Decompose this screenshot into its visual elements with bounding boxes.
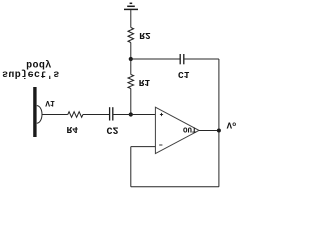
svg-text:OUT: OUT bbox=[183, 124, 197, 132]
svg-text:V1: V1 bbox=[45, 98, 55, 107]
svg-text:R4: R4 bbox=[66, 124, 78, 135]
wire bbox=[131, 58, 180, 60]
wire bbox=[83, 114, 110, 116]
svg-text:R2: R2 bbox=[139, 30, 151, 41]
wire bbox=[130, 89, 132, 115]
label OUT bbox=[183, 124, 197, 132]
svg-text:C1: C1 bbox=[178, 69, 190, 80]
resistor R1 bbox=[128, 75, 134, 89]
text subject's body bbox=[26, 58, 52, 70]
wire plus input stub bbox=[131, 114, 156, 116]
capacitor C1 bbox=[180, 54, 184, 64]
svg-text:o: o bbox=[232, 120, 236, 127]
op-amp U1 bbox=[155, 107, 199, 153]
wire bbox=[218, 59, 220, 187]
minus sign bbox=[159, 144, 162, 146]
wire feedback left vertical bbox=[130, 147, 132, 187]
electrode V1 bbox=[33, 87, 36, 137]
plus sign bbox=[160, 113, 163, 116]
label R4 bbox=[66, 124, 78, 135]
wire feedback bottom bbox=[131, 186, 219, 188]
capacitor C2 bbox=[110, 107, 113, 120]
svg-text:subject's: subject's bbox=[2, 68, 60, 80]
wire bbox=[130, 10, 132, 28]
svg-text:R1: R1 bbox=[139, 77, 151, 88]
resistor R2 bbox=[128, 28, 134, 43]
wire bbox=[130, 43, 132, 60]
label R1 bbox=[139, 77, 151, 88]
label Vo bbox=[227, 119, 237, 129]
label R2 bbox=[139, 30, 151, 41]
node OUT junction dot bbox=[217, 129, 221, 133]
wire bbox=[184, 58, 219, 60]
wire minus input bbox=[131, 146, 156, 148]
wire bbox=[130, 59, 132, 75]
resistor R4 bbox=[68, 112, 83, 118]
wire output bbox=[199, 130, 219, 132]
svg-text:C2: C2 bbox=[106, 124, 118, 135]
label C1 bbox=[178, 69, 190, 80]
node B junction dot bbox=[129, 112, 133, 116]
wire bbox=[113, 114, 156, 116]
ground bbox=[124, 3, 138, 9]
node A junction dot bbox=[129, 57, 133, 61]
label V1 bbox=[45, 98, 55, 107]
label C2 bbox=[106, 124, 118, 135]
wire bbox=[42, 114, 68, 116]
